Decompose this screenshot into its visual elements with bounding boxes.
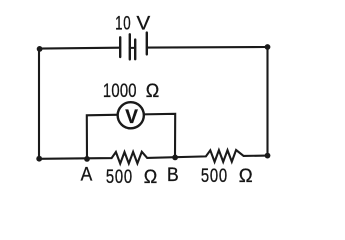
svg-text:500: 500 [106,166,133,187]
svg-text:V: V [137,13,152,34]
svg-text:B: B [167,163,179,185]
svg-text:500: 500 [201,165,228,186]
svg-text:Ω: Ω [146,80,160,102]
svg-text:1000: 1000 [103,80,137,101]
svg-text:A: A [81,163,93,185]
svg-text:V: V [125,107,138,128]
svg-text:Ω: Ω [239,165,253,186]
svg-text:Ω: Ω [144,165,158,187]
svg-text:10: 10 [115,13,131,34]
